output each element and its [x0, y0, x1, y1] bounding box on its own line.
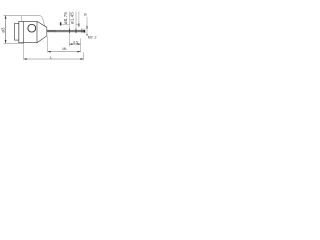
svg-text:R: R	[84, 13, 87, 17]
right leader vertical dimension	[86, 17, 88, 36]
extension line X3 arrow mark, stem tick, 6.5 right ext	[78, 12, 80, 28]
faint step tick on stem	[55, 30, 57, 33]
short arrow line between X2 and X3	[76, 24, 79, 26]
body face line	[23, 22, 25, 43]
svg-text:L: L	[50, 55, 52, 59]
svg-text:ø1,45: ø1,45	[69, 12, 74, 24]
left vertical dimension line	[5, 16, 7, 44]
ML dimension line	[48, 51, 81, 53]
stem band	[47, 30, 84, 32]
thread stub rectangle	[15, 23, 19, 40]
M2 thread end blob	[84, 30, 86, 33]
6,5 dimension line with arrows	[69, 43, 80, 45]
taper cone top edge	[37, 21, 47, 27]
body main rectangle	[19, 21, 37, 42]
svg-text:ø0,75: ø0,75	[63, 12, 68, 24]
extension line X2 through stem	[75, 12, 77, 34]
wire leader: top horizontal extension with arc down to taper	[4, 15, 45, 25]
outside arrow mark left of X1	[61, 24, 69, 26]
wire: bottom-left horizontal extension line	[4, 42, 24, 44]
L right extension	[83, 52, 85, 60]
ML extension from cone tip	[47, 36, 49, 52]
vertical drop from leader to body top	[21, 16, 23, 22]
circle cross hole	[28, 24, 36, 32]
svg-text:6,5: 6,5	[73, 40, 78, 44]
svg-text:2: 2	[95, 35, 97, 39]
svg-text:ø3: ø3	[0, 27, 5, 33]
svg-text:M2: M2	[88, 35, 93, 39]
extension line X1 down to 6,5 dim	[68, 12, 70, 47]
svg-text:ML: ML	[62, 47, 67, 51]
L dimension line	[24, 58, 84, 60]
L extension below body	[23, 43, 25, 60]
taper cone bottom edge	[37, 36, 47, 43]
